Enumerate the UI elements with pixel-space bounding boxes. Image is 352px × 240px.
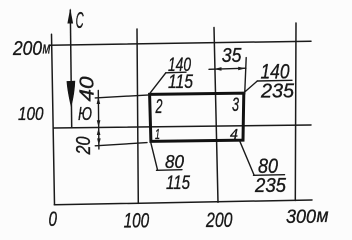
svg-text:235: 235 — [260, 81, 295, 103]
svg-text:20: 20 — [73, 137, 95, 156]
svg-text:235: 235 — [254, 175, 287, 197]
svg-text:Ю: Ю — [78, 104, 92, 124]
svg-text:80: 80 — [165, 152, 184, 172]
svg-text:1: 1 — [155, 126, 160, 143]
svg-text:100: 100 — [124, 210, 150, 233]
svg-text:200: 200 — [205, 209, 232, 232]
svg-text:300: 300 — [286, 207, 316, 228]
svg-text:2: 2 — [155, 96, 163, 118]
svg-text:115: 115 — [168, 72, 193, 93]
svg-text:35: 35 — [222, 45, 242, 67]
svg-text:0: 0 — [49, 208, 58, 231]
svg-text:100: 100 — [18, 104, 44, 124]
svg-text:115: 115 — [166, 173, 190, 194]
svg-text:м: м — [43, 39, 51, 58]
svg-text:м: м — [317, 206, 329, 227]
svg-text:3: 3 — [232, 95, 239, 116]
svg-text:40: 40 — [77, 77, 99, 102]
svg-text:С: С — [76, 7, 84, 33]
svg-text:4: 4 — [230, 126, 238, 143]
svg-text:200: 200 — [12, 38, 42, 60]
